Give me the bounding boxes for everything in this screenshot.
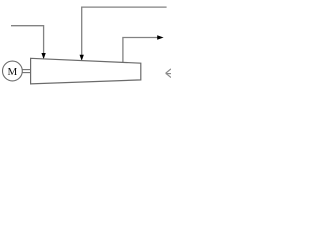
svg-text:M: M: [8, 66, 18, 78]
